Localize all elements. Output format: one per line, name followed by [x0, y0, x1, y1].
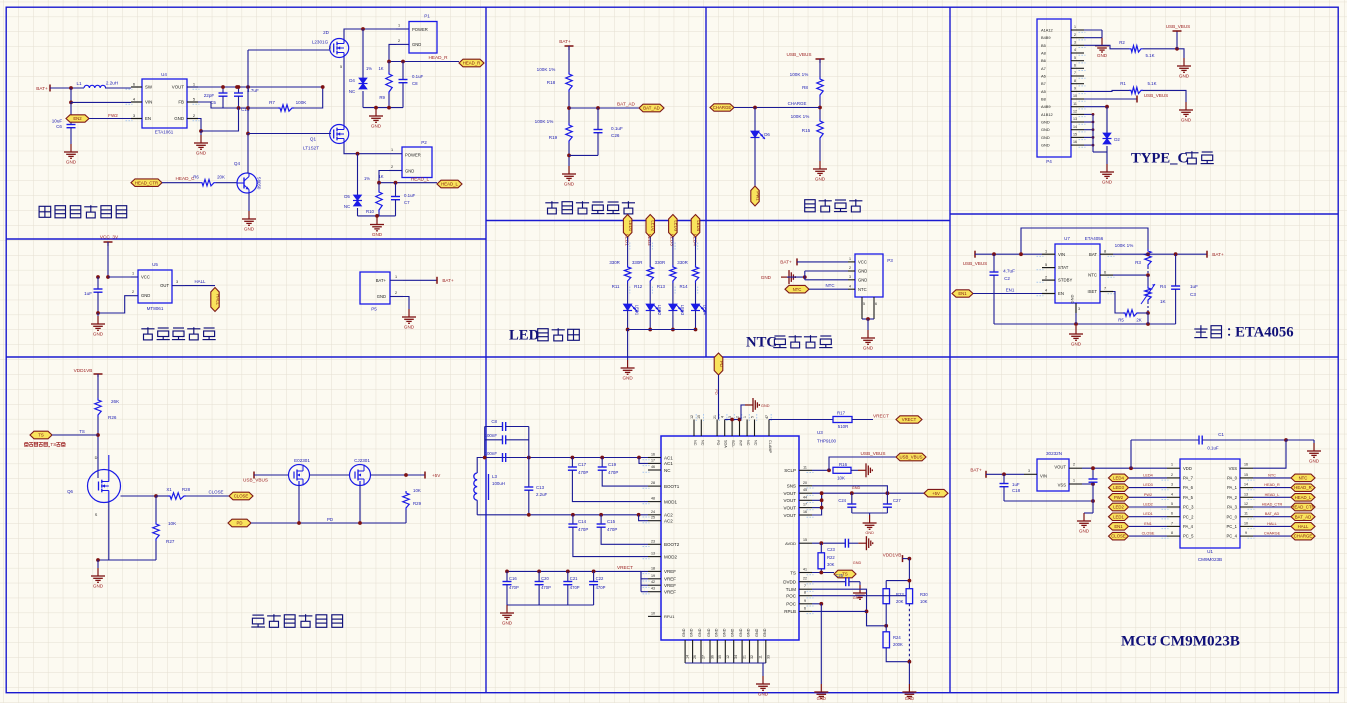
svg-text:GND: GND	[758, 692, 769, 697]
svg-text:1: 1	[395, 275, 397, 279]
svg-text:470P: 470P	[607, 527, 617, 532]
svg-text:VREF: VREF	[664, 569, 676, 574]
svg-text:TS: TS	[842, 572, 848, 577]
svg-text:PC_2: PC_2	[1183, 514, 1194, 519]
svg-text:NC: NC	[700, 440, 704, 446]
svg-text:A1B12: A1B12	[1041, 112, 1053, 117]
svg-text:10K: 10K	[920, 599, 928, 604]
svg-text:21: 21	[743, 655, 747, 659]
svg-text:R16: R16	[839, 462, 848, 467]
svg-text:1uF: 1uF	[84, 291, 92, 296]
svg-text:R6: R6	[193, 175, 199, 180]
svg-text:3: 3	[1074, 41, 1076, 45]
svg-text:LED4: LED4	[703, 305, 708, 316]
svg-text:13: 13	[651, 552, 655, 556]
svg-text:C13: C13	[536, 485, 545, 490]
svg-text:LED3: LED3	[680, 305, 685, 316]
svg-text:CHARGE: CHARGE	[713, 105, 732, 110]
svg-text:LED3: LED3	[673, 220, 678, 231]
svg-text:C7: C7	[404, 200, 410, 205]
svg-text:470P: 470P	[596, 585, 606, 590]
svg-text:2: 2	[1045, 275, 1047, 279]
svg-text:22: 22	[803, 577, 807, 581]
svg-text:330R: 330R	[632, 260, 643, 265]
svg-text:CJ2301: CJ2301	[354, 458, 370, 463]
svg-text:R5: R5	[1118, 318, 1124, 323]
svg-text:41: 41	[803, 568, 807, 572]
svg-text:HEAD_CTR: HEAD_CTR	[135, 180, 158, 185]
svg-text:10uF: 10uF	[52, 119, 63, 124]
svg-text:LED2: LED2	[657, 305, 662, 316]
svg-text:P1: P1	[424, 14, 430, 19]
svg-text:25: 25	[651, 516, 655, 520]
svg-text:470P: 470P	[608, 470, 618, 475]
svg-text:8: 8	[1074, 79, 1076, 83]
svg-text:1: 1	[1073, 479, 1075, 483]
svg-text:PD: PD	[719, 361, 724, 367]
svg-text:C26: C26	[611, 133, 620, 138]
svg-text:2: 2	[398, 39, 400, 43]
svg-text:33: 33	[766, 655, 770, 659]
svg-text:EN1: EN1	[1144, 522, 1151, 526]
svg-text:S8050: S8050	[257, 177, 262, 190]
svg-text:3: 3	[728, 416, 732, 418]
svg-text:2: 2	[132, 290, 134, 294]
svg-text:GND: GND	[1041, 120, 1050, 125]
svg-text:34: 34	[734, 655, 738, 659]
svg-text:470P: 470P	[509, 585, 519, 590]
svg-text:11: 11	[1073, 102, 1077, 106]
svg-text:BAT_AD: BAT_AD	[643, 106, 659, 111]
svg-text:LED2: LED2	[1143, 503, 1153, 507]
svg-text:LED1: LED1	[1143, 512, 1153, 516]
svg-text:GND: GND	[722, 628, 726, 637]
svg-text:100K 1%: 100K 1%	[1115, 243, 1134, 248]
svg-text:10: 10	[651, 611, 655, 615]
svg-text:NTC: NTC	[825, 283, 834, 288]
svg-text:VOUT: VOUT	[783, 513, 796, 518]
svg-text:SDA: SDA	[724, 440, 728, 448]
svg-text:100uH: 100uH	[492, 481, 505, 486]
svg-text:2: 2	[329, 46, 331, 50]
svg-text:R10: R10	[366, 209, 375, 214]
svg-text:C20: C20	[541, 576, 549, 581]
svg-text:14: 14	[1073, 125, 1077, 129]
svg-text:LED4: LED4	[1113, 476, 1124, 481]
svg-text:GND: GND	[761, 404, 770, 408]
svg-text:B6: B6	[1041, 58, 1046, 63]
svg-text:4: 4	[1074, 48, 1076, 52]
svg-text:GND: GND	[502, 621, 513, 626]
svg-text:5: 5	[340, 65, 342, 69]
svg-text:2: 2	[1171, 473, 1173, 477]
svg-text:330R: 330R	[609, 260, 620, 265]
svg-text:12: 12	[1244, 502, 1248, 506]
svg-text:C1: C1	[1218, 432, 1224, 437]
svg-text:NTC: NTC	[746, 334, 777, 350]
svg-text:BAT+: BAT+	[442, 278, 454, 283]
svg-text:3: 3	[176, 280, 178, 284]
svg-text:1: 1	[1171, 463, 1173, 467]
svg-text:R22: R22	[827, 555, 835, 560]
svg-text:VRECT: VRECT	[902, 417, 917, 422]
svg-text:EN: EN	[145, 116, 151, 121]
svg-text:17: 17	[651, 458, 655, 462]
svg-text:USB_VBUS: USB_VBUS	[860, 451, 885, 456]
svg-text:L2301G: L2301G	[312, 40, 329, 45]
svg-text:NC: NC	[344, 204, 350, 209]
svg-text:RFU1: RFU1	[664, 614, 675, 619]
svg-text:VIN: VIN	[1040, 474, 1047, 479]
svg-text:VREF: VREF	[664, 583, 676, 588]
svg-text:11: 11	[803, 465, 807, 469]
svg-text:20K: 20K	[896, 599, 904, 604]
svg-text:PA_5: PA_5	[1183, 495, 1194, 500]
svg-text:PA_3: PA_3	[1227, 505, 1238, 510]
svg-text:7: 7	[1171, 521, 1173, 525]
svg-text:10K: 10K	[168, 521, 177, 526]
svg-text:100K 1%: 100K 1%	[535, 119, 554, 124]
svg-text:USB_VBUS: USB_VBUS	[243, 478, 268, 483]
svg-text:6: 6	[1104, 270, 1106, 274]
svg-text:LED: LED	[509, 327, 539, 343]
svg-text:NTC: NTC	[793, 287, 802, 292]
svg-text:20: 20	[803, 481, 807, 485]
svg-text:GND: GND	[853, 596, 862, 600]
svg-text:R14: R14	[679, 284, 688, 289]
svg-text:3: 3	[1171, 483, 1173, 487]
svg-text:BAT_AD: BAT_AD	[1265, 512, 1280, 516]
svg-text:2: 2	[1074, 33, 1076, 37]
svg-text:MCU: MCU	[1121, 633, 1157, 650]
svg-text:CLOSE: CLOSE	[234, 494, 249, 499]
svg-text:2: 2	[1073, 463, 1075, 467]
svg-text:R18: R18	[547, 80, 556, 85]
svg-text:BAT_AD: BAT_AD	[617, 102, 636, 107]
svg-text:POWER: POWER	[412, 27, 428, 32]
svg-text:+5V: +5V	[432, 473, 441, 478]
svg-text:35: 35	[718, 655, 722, 659]
svg-text:A7: A7	[1041, 66, 1046, 71]
svg-text:VRECT: VRECT	[617, 565, 633, 570]
svg-text:R13: R13	[657, 284, 666, 289]
svg-text:GND: GND	[698, 628, 702, 637]
svg-text:STAT: STAT	[1058, 265, 1069, 270]
svg-text:U4: U4	[161, 72, 167, 77]
svg-text:LED3: LED3	[670, 234, 675, 246]
svg-text:GND: GND	[141, 293, 150, 298]
svg-text:3: 3	[1028, 469, 1030, 473]
svg-text:GND: GND	[1097, 53, 1108, 58]
svg-text:470P: 470P	[541, 585, 551, 590]
svg-text:18: 18	[651, 566, 655, 570]
svg-text:C8: C8	[412, 81, 418, 86]
svg-text:SW: SW	[145, 85, 153, 90]
svg-text:GND: GND	[244, 227, 255, 232]
svg-text:POC: POC	[786, 602, 797, 607]
svg-text:7: 7	[1104, 287, 1106, 291]
svg-text:GND: GND	[707, 628, 711, 637]
svg-text:R9: R9	[379, 95, 385, 100]
svg-text:330R: 330R	[655, 260, 666, 265]
svg-text:GND: GND	[1309, 459, 1320, 464]
svg-text:VCC: VCC	[141, 275, 150, 280]
svg-text:LED4: LED4	[692, 234, 697, 246]
svg-text:R8: R8	[802, 85, 808, 90]
svg-text:2.2uH: 2.2uH	[106, 81, 118, 86]
svg-text:DVDD: DVDD	[783, 580, 797, 585]
svg-text:MOD1: MOD1	[664, 499, 677, 504]
svg-text:2: 2	[391, 165, 393, 169]
svg-text:42: 42	[651, 580, 655, 584]
svg-text:HEAD_R: HEAD_R	[428, 55, 448, 60]
svg-text:PA_2: PA_2	[1227, 495, 1238, 500]
svg-text:4: 4	[1045, 289, 1047, 293]
svg-text:16: 16	[803, 510, 807, 514]
svg-text:GND: GND	[412, 42, 421, 47]
svg-text:GND: GND	[817, 696, 826, 701]
svg-text:GND: GND	[858, 269, 867, 274]
svg-text:4: 4	[1171, 492, 1173, 496]
svg-text:1: 1	[398, 24, 400, 28]
svg-text:ETA4056: ETA4056	[1235, 324, 1293, 340]
svg-text:21: 21	[713, 415, 717, 419]
svg-text:HALL: HALL	[1298, 524, 1309, 529]
svg-text:CLOSE: CLOSE	[209, 490, 224, 495]
svg-text:5: 5	[1045, 263, 1047, 267]
svg-text:AVDD: AVDD	[785, 541, 796, 546]
svg-text:U3: U3	[817, 430, 823, 435]
svg-text:GND: GND	[93, 584, 104, 589]
svg-text:HEAD_L: HEAD_L	[441, 182, 458, 187]
svg-text:2D: 2D	[323, 30, 330, 35]
svg-text:S: S	[95, 513, 98, 517]
svg-text:GND: GND	[865, 531, 874, 535]
svg-text:5: 5	[1171, 502, 1173, 506]
svg-text:AC2: AC2	[664, 513, 673, 518]
svg-text:LED3: LED3	[1113, 485, 1124, 490]
svg-text:GND: GND	[372, 232, 383, 237]
svg-text:GND: GND	[1041, 135, 1050, 140]
svg-text:26: 26	[693, 655, 697, 659]
svg-text:R1: R1	[1120, 81, 1126, 86]
svg-text:10K: 10K	[413, 488, 421, 493]
svg-text:11: 11	[758, 655, 762, 659]
svg-text:100nF: 100nF	[485, 451, 498, 456]
svg-text:HEAD_R: HEAD_R	[1264, 483, 1280, 487]
svg-text:C25: C25	[835, 573, 843, 578]
svg-text:ISET: ISET	[1087, 289, 1097, 294]
svg-text:GND: GND	[404, 325, 415, 330]
svg-text:1K: 1K	[378, 66, 383, 71]
svg-text:16: 16	[1073, 140, 1077, 144]
svg-text:P4: P4	[1046, 159, 1052, 164]
svg-text:5: 5	[750, 416, 754, 418]
svg-text:THP9100: THP9100	[817, 439, 837, 444]
svg-text:7: 7	[1074, 71, 1076, 75]
svg-text:4.7uF: 4.7uF	[1003, 269, 1015, 274]
svg-text:NTC: NTC	[1268, 473, 1276, 477]
svg-text:SCLP: SCLP	[784, 468, 796, 473]
svg-text:PA_4: PA_4	[1183, 524, 1194, 529]
svg-text:C16: C16	[509, 576, 517, 581]
svg-text:VDD1VB: VDD1VB	[74, 368, 93, 373]
svg-text:GND: GND	[815, 177, 826, 182]
svg-text:HALL: HALL	[195, 279, 207, 284]
svg-text:POWER: POWER	[405, 153, 421, 158]
svg-text:43: 43	[651, 587, 655, 591]
svg-text:R15: R15	[802, 128, 811, 133]
svg-text:U1: U1	[1207, 549, 1213, 554]
svg-text:USB_VBUS: USB_VBUS	[786, 52, 811, 57]
svg-text:VDD: VDD	[1183, 466, 1192, 471]
svg-text:VRECT: VRECT	[873, 414, 889, 419]
svg-text:32: 32	[750, 655, 754, 659]
svg-text:48: 48	[651, 497, 655, 501]
svg-text:1: 1	[743, 416, 747, 418]
svg-text:A8: A8	[1041, 51, 1046, 56]
svg-text:NTC: NTC	[858, 287, 867, 292]
svg-text:LED2: LED2	[647, 234, 652, 246]
svg-text:R19: R19	[549, 135, 558, 140]
svg-text:HALL: HALL	[1267, 522, 1277, 526]
svg-text:PC_4: PC_4	[1227, 534, 1238, 539]
svg-text:R29: R29	[413, 501, 422, 506]
svg-text:P5: P5	[371, 307, 377, 312]
svg-text:16: 16	[1244, 463, 1248, 467]
svg-text:USB_VBUS: USB_VBUS	[900, 455, 923, 460]
svg-text:R24: R24	[893, 635, 901, 640]
svg-text:GND: GND	[682, 628, 686, 637]
svg-text:NC: NC	[754, 440, 758, 446]
svg-text:9: 9	[804, 599, 806, 603]
svg-text:GND: GND	[731, 628, 735, 637]
svg-text:GND: GND	[1179, 74, 1190, 79]
svg-text:4: 4	[721, 416, 725, 418]
svg-text:1: 1	[1074, 25, 1076, 29]
svg-text:C6: C6	[56, 124, 62, 129]
svg-text:CHARGE: CHARGE	[1264, 532, 1281, 536]
svg-text:10: 10	[1073, 94, 1077, 98]
svg-text:28: 28	[651, 481, 655, 485]
svg-text:100K: 100K	[296, 100, 308, 105]
svg-text:17: 17	[803, 503, 807, 507]
svg-text:SNS: SNS	[787, 484, 796, 489]
svg-text:1%: 1%	[364, 176, 370, 181]
svg-text:USB_VBUS: USB_VBUS	[1144, 93, 1169, 98]
svg-text:PW2: PW2	[1114, 495, 1124, 500]
svg-text:470P: 470P	[578, 470, 588, 475]
svg-text:MOD2: MOD2	[664, 554, 677, 559]
svg-text:12: 12	[726, 655, 730, 659]
svg-text:R12: R12	[634, 284, 643, 289]
svg-text:E02301: E02301	[294, 458, 310, 463]
svg-text:CM9M023B: CM9M023B	[1198, 557, 1222, 562]
svg-text:PD: PD	[237, 521, 243, 526]
svg-text:GND: GND	[761, 275, 772, 280]
svg-text:GND: GND	[763, 628, 767, 637]
svg-text:STDBY: STDBY	[1058, 278, 1072, 283]
svg-text:VOUT: VOUT	[783, 498, 796, 503]
svg-text:R7: R7	[269, 100, 275, 105]
svg-text:VCC: VCC	[858, 260, 867, 265]
svg-text:R11: R11	[612, 284, 620, 289]
svg-text:GND: GND	[1071, 342, 1082, 347]
svg-text:CHARGE: CHARGE	[788, 101, 807, 106]
svg-text:BAT+: BAT+	[780, 260, 792, 265]
svg-text:BAT: BAT	[1089, 252, 1097, 257]
svg-text:R28: R28	[182, 487, 191, 492]
svg-text:TS: TS	[790, 570, 796, 575]
svg-text:LED1: LED1	[624, 234, 629, 246]
svg-text:GND: GND	[739, 628, 743, 637]
svg-text:GND: GND	[1102, 180, 1113, 185]
svg-text:CLOSE: CLOSE	[1142, 532, 1155, 536]
svg-text:L1: L1	[76, 81, 82, 86]
svg-text:7: 7	[804, 584, 806, 588]
svg-text:HALL: HALL	[216, 294, 221, 305]
svg-text:BOOT1: BOOT1	[664, 484, 680, 489]
svg-text:0.1uF: 0.1uF	[404, 193, 416, 198]
svg-text:12: 12	[690, 415, 694, 419]
svg-text:BAT+: BAT+	[970, 468, 982, 473]
svg-text:4.7uF: 4.7uF	[247, 88, 259, 93]
svg-text:HEAD_R: HEAD_R	[1294, 485, 1311, 490]
svg-text:Q6: Q6	[67, 489, 73, 494]
svg-text:BAT+: BAT+	[376, 278, 387, 283]
svg-text:1%: 1%	[366, 66, 372, 71]
svg-text:13: 13	[1073, 117, 1077, 121]
svg-text:13: 13	[1244, 492, 1248, 496]
svg-text:L3: L3	[492, 474, 497, 479]
svg-text:LED3: LED3	[1143, 483, 1153, 487]
svg-text:C18: C18	[1012, 488, 1021, 493]
svg-text:HEAD_CTR: HEAD_CTR	[1291, 505, 1314, 510]
svg-text:D4: D4	[349, 78, 355, 83]
svg-text:HEAD_C: HEAD_C	[175, 176, 195, 181]
svg-text:U5: U5	[152, 262, 158, 267]
svg-text:NC: NC	[664, 468, 671, 473]
svg-text:HEAD_L: HEAD_L	[411, 177, 430, 182]
svg-text:470P: 470P	[570, 585, 580, 590]
svg-text:Q1: Q1	[310, 137, 317, 142]
svg-text:BAT+: BAT+	[36, 86, 48, 91]
svg-text:GND: GND	[714, 628, 718, 637]
svg-text:100K 1%: 100K 1%	[791, 114, 810, 119]
svg-text:23: 23	[651, 539, 655, 543]
svg-text:FW2: FW2	[108, 113, 118, 118]
svg-text:+5V: +5V	[932, 491, 940, 496]
svg-text:TLIM: TLIM	[786, 587, 797, 592]
svg-text:LED2: LED2	[651, 220, 656, 231]
svg-text:B8: B8	[1041, 97, 1046, 102]
svg-text:0.1uF: 0.1uF	[611, 126, 623, 131]
svg-text:46: 46	[651, 465, 655, 469]
svg-text:C2: C2	[1004, 276, 1010, 281]
svg-text:2: 2	[849, 266, 851, 270]
svg-text:MT8061: MT8061	[147, 306, 164, 311]
svg-text:R4: R4	[1160, 284, 1166, 289]
svg-text:510R: 510R	[838, 424, 849, 429]
svg-text:1: 1	[1045, 249, 1047, 253]
svg-text:15: 15	[697, 415, 701, 419]
svg-text:2.2uF: 2.2uF	[536, 492, 548, 497]
svg-text:0.1uF: 0.1uF	[412, 74, 424, 79]
svg-text:CLAMP: CLAMP	[768, 440, 772, 454]
svg-text:GND: GND	[371, 124, 382, 129]
svg-text:GND: GND	[66, 160, 77, 165]
svg-text:EN2: EN2	[73, 116, 82, 121]
